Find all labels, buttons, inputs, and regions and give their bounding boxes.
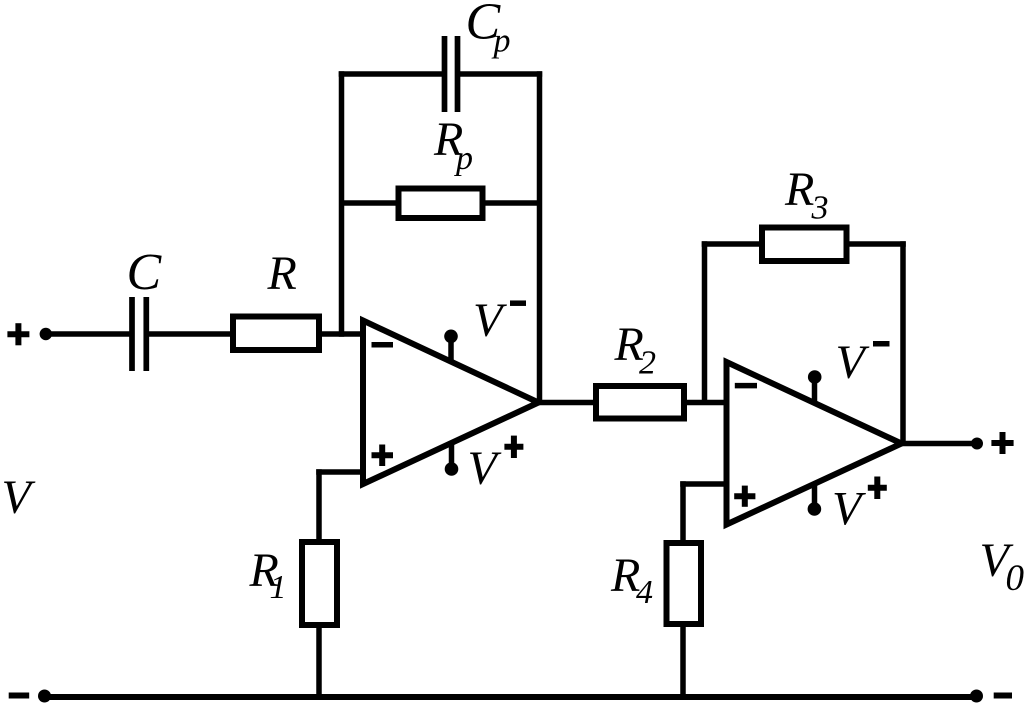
wire Rp left <box>342 200 400 206</box>
wire R4 to rail <box>680 624 686 698</box>
rail left minus sign <box>9 693 30 699</box>
resistor R3 <box>762 228 847 262</box>
op-amp U2 V+ power pin <box>812 484 818 509</box>
svg-text:V: V <box>468 442 502 495</box>
svg-text:p: p <box>454 140 473 177</box>
output node dot <box>971 438 983 450</box>
capacitor C <box>132 297 146 371</box>
svg-text:R: R <box>267 247 297 300</box>
op-amp U2 <box>727 362 902 525</box>
resistor R1 <box>302 542 337 625</box>
wire Cp to top-right corner <box>458 71 543 77</box>
input terminal plus sign <box>7 323 29 345</box>
svg-text:R: R <box>784 163 814 216</box>
svg-text:2: 2 <box>639 345 656 382</box>
wire feedback right vertical <box>537 71 543 402</box>
op-amp U2 minus sign <box>735 383 757 389</box>
op-amp U2 plus sign <box>734 486 755 507</box>
wire feedback left vertical <box>339 71 345 337</box>
svg-text:V: V <box>2 471 36 524</box>
svg-text:V: V <box>836 336 870 389</box>
op-amp U1 plus sign <box>372 445 394 467</box>
rail left node dot <box>38 690 51 703</box>
wire Rp right <box>482 200 540 206</box>
wire R3 feedback right vertical <box>900 241 906 443</box>
wire C to R <box>149 331 232 337</box>
capacitor Cp <box>445 36 458 112</box>
wire input to C <box>46 331 130 337</box>
svg-text:p: p <box>492 23 511 60</box>
wire U1 non-inverting input <box>316 469 363 475</box>
svg-text:V: V <box>473 294 507 347</box>
svg-text:V: V <box>832 483 866 536</box>
op-amp U1 V+ power pin <box>449 443 455 469</box>
resistor R <box>233 317 319 351</box>
bottom rail wire <box>45 694 977 700</box>
svg-text:1: 1 <box>270 569 287 606</box>
svg-text:3: 3 <box>811 190 829 227</box>
wire R3 right <box>847 241 906 247</box>
wire U1 output to R2 <box>539 400 597 406</box>
svg-text:4: 4 <box>636 574 653 611</box>
wire U2 output <box>902 441 978 447</box>
op-amp U2 V- power pin <box>812 377 818 403</box>
rail right node dot <box>970 690 983 703</box>
wire R1 to rail <box>316 625 322 698</box>
svg-text:0: 0 <box>1006 558 1025 599</box>
svg-text:C: C <box>127 244 163 301</box>
wire U2 non-inverting input <box>680 481 726 487</box>
wire top feedback to Cp <box>339 71 445 77</box>
wire R3 feedback left vertical <box>702 241 708 402</box>
output terminal plus sign <box>991 432 1013 454</box>
resistor R4 <box>667 543 702 624</box>
rail right minus sign <box>994 693 1012 699</box>
op-amp U1 minus sign <box>372 342 394 348</box>
wire R2 to op-amp U2 inverting input <box>684 400 727 406</box>
resistor Rp <box>399 189 483 219</box>
wire R to op-amp U1 inverting input <box>321 331 363 337</box>
op-amp U1 V- power pin <box>448 336 454 362</box>
wire R3 left <box>702 241 762 247</box>
input node dot <box>40 328 52 340</box>
op-amp U1 <box>363 321 539 485</box>
resistor R2 <box>596 386 684 419</box>
